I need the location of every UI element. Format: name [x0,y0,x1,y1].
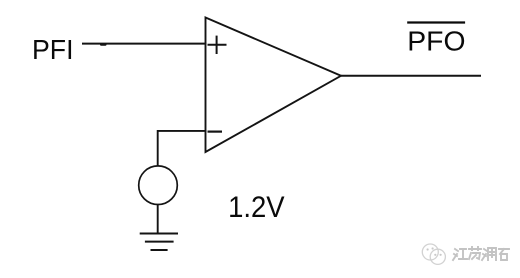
svg-text:1.2V: 1.2V [228,191,285,224]
svg-text:PFO: PFO [407,26,465,57]
svg-text:PFI: PFI [32,34,74,65]
